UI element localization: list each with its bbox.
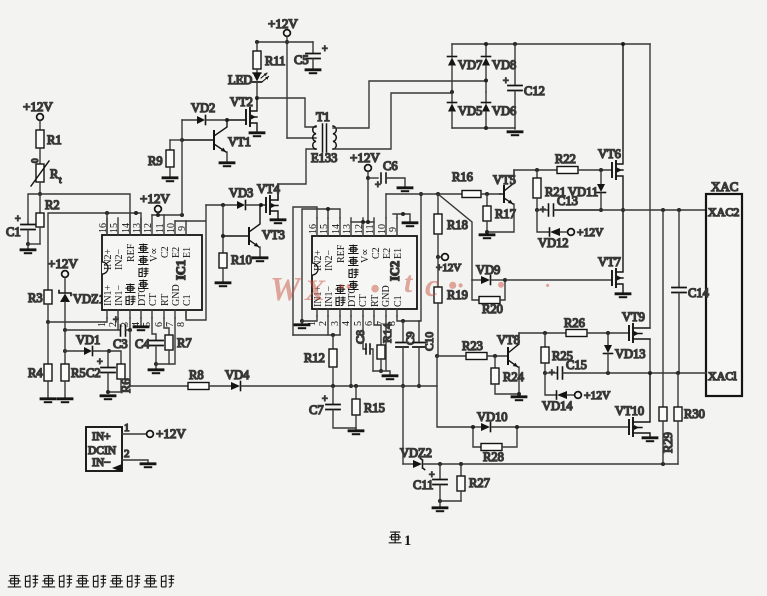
IC1 bottom pin stubs 1..8 xyxy=(107,310,186,318)
svg-text:C12: C12 xyxy=(524,84,545,98)
diode VD8 xyxy=(482,44,517,92)
svg-text:XAC2: XAC2 xyxy=(708,205,739,219)
IC1 pin13 label (output control, CJK) xyxy=(139,244,149,289)
wire R3 riser to IC1 pins 16/13 xyxy=(48,213,141,290)
resistor R1 xyxy=(36,130,62,148)
svg-text:XACl: XACl xyxy=(708,369,737,383)
svg-text:2: 2 xyxy=(124,448,130,460)
svg-text:+12V: +12V xyxy=(140,191,170,206)
node LED/VT2/T1 xyxy=(255,96,259,100)
connector XAC box xyxy=(706,179,742,396)
svg-text:LED: LED xyxy=(228,73,252,87)
node R17/emitter ground xyxy=(485,230,489,234)
svg-text:R27: R27 xyxy=(469,476,490,490)
capacitor C13 xyxy=(537,194,601,216)
IC2 bottom pin numbers xyxy=(307,321,398,326)
resistor R27 xyxy=(457,464,490,501)
resistor R15 xyxy=(349,386,385,434)
resistor R20 (parallel with VD9) xyxy=(472,280,505,316)
svg-text:C15: C15 xyxy=(566,358,587,372)
svg-text:IC2: IC2 xyxy=(388,261,402,281)
node VD3/VT4 gate/VT3 collector xyxy=(259,203,263,207)
diode VD10 xyxy=(473,410,517,432)
svg-text:+: + xyxy=(375,180,381,191)
IC2 pin13 label (output control, CJK) xyxy=(349,245,359,290)
svg-text:C1: C1 xyxy=(6,225,21,239)
IC1 top inner labels xyxy=(103,243,193,270)
svg-text:+12V: +12V xyxy=(48,256,78,271)
svg-text:C4: C4 xyxy=(135,337,150,351)
svg-text:IN2+: IN2+ xyxy=(313,249,324,271)
wire XAC2 line xyxy=(554,209,706,211)
capacitor C15 xyxy=(545,358,706,379)
wire IC2 pins15/14 tie down left side xyxy=(302,209,340,321)
resistor R3 xyxy=(28,290,52,322)
node VD3/R10 branch xyxy=(221,203,225,207)
resistor R6 xyxy=(108,351,133,393)
svg-text:REF: REF xyxy=(126,243,137,262)
svg-text:13: 13 xyxy=(342,224,353,234)
transistor VT3 (NPN) xyxy=(223,205,285,261)
node C4/R7/pin7 ground xyxy=(154,362,158,366)
svg-text:R12: R12 xyxy=(304,351,325,365)
IC1 bottom inner labels xyxy=(103,284,193,306)
resistor R10 xyxy=(216,253,252,286)
capacitor C7 xyxy=(309,386,356,428)
svg-text:+12V: +12V xyxy=(23,99,53,114)
svg-text:16: 16 xyxy=(98,223,109,233)
wire VT7 gate line xyxy=(505,279,612,281)
wire IC2 pin1 to ground xyxy=(302,316,317,323)
svg-text:+: + xyxy=(322,44,328,55)
svg-text:R14: R14 xyxy=(380,323,394,343)
node C8/R14 ground tie xyxy=(379,369,383,373)
wire +12V to T1 center tap xyxy=(287,137,316,139)
svg-text:DTC: DTC xyxy=(137,286,148,306)
transistor VT9 (MOSFET) xyxy=(622,310,650,342)
svg-text:11: 11 xyxy=(155,223,166,233)
bottom caption (CJK title) xyxy=(8,575,174,587)
svg-text:VT9: VT9 xyxy=(622,310,645,324)
svg-text:•·: •· xyxy=(448,271,464,300)
svg-text:R15: R15 xyxy=(364,401,385,415)
resistor R16 xyxy=(452,170,500,198)
svg-text:VT7: VT7 xyxy=(598,255,621,269)
wire T1 primary bottom tap to VT4 drain xyxy=(278,149,316,200)
wire IC2 pin3 drop xyxy=(339,316,341,335)
thermistor Rt xyxy=(30,158,62,186)
svg-text:10: 10 xyxy=(377,224,388,234)
svg-text:VT6: VT6 xyxy=(598,147,621,161)
svg-text:c: c xyxy=(425,267,439,303)
svg-text:GND: GND xyxy=(381,285,392,307)
svg-text:··: ·· xyxy=(338,272,352,303)
svg-text:V∝: V∝ xyxy=(360,249,371,263)
svg-text:+12V: +12V xyxy=(268,16,298,31)
svg-text:IN−: IN− xyxy=(92,457,111,469)
transistor VT4 (MOSFET) xyxy=(257,182,285,223)
wire +12V rail to R11 and C5 xyxy=(257,41,313,43)
svg-text:E2: E2 xyxy=(382,248,393,259)
IC2 bottom pin stubs 1..8 xyxy=(317,309,397,316)
wire IC2 pin2 drop xyxy=(327,316,329,335)
capacitor C14 xyxy=(672,210,710,373)
svg-text:C11: C11 xyxy=(413,478,433,492)
figure caption 图1 xyxy=(389,531,412,549)
capacitor C11 xyxy=(413,464,447,501)
svg-text:+12V: +12V xyxy=(577,227,604,239)
svg-text:+: + xyxy=(15,214,21,225)
resistor R17 xyxy=(483,194,516,232)
wire VD3 node to R10/VT3 base xyxy=(222,205,224,253)
node +12V tap between R18/R19 xyxy=(436,255,440,259)
svg-text:W: W xyxy=(270,271,303,308)
svg-text:R8: R8 xyxy=(189,368,204,382)
resistor R19 xyxy=(434,257,468,356)
resistor R18 xyxy=(434,194,468,257)
resistor R25 xyxy=(541,333,573,373)
svg-text:VD6: VD6 xyxy=(492,104,516,118)
svg-text:12: 12 xyxy=(143,223,154,233)
wire C3 to pin 3 and feedback rail xyxy=(126,318,131,330)
wire IC1 drive rail to VD3 xyxy=(206,204,237,206)
resistor R21 xyxy=(533,170,566,210)
svg-text:+12V: +12V xyxy=(350,150,380,165)
svg-text:13: 13 xyxy=(132,223,143,233)
+12V terminal top-left xyxy=(23,99,53,130)
diode VD1 xyxy=(63,333,111,356)
IC1 top pin numbers xyxy=(98,223,188,233)
svg-text:DCIN: DCIN xyxy=(88,445,117,457)
wire bridge top rail xyxy=(452,43,650,45)
node R18 top xyxy=(436,192,440,196)
resistor R23 xyxy=(462,339,508,360)
transistor VT6 (MOSFET) xyxy=(598,44,623,271)
svg-text:R4: R4 xyxy=(28,366,43,380)
capacitor C1 xyxy=(6,214,35,244)
ground under C11 xyxy=(433,501,447,511)
resistor R7 xyxy=(164,318,192,364)
wire R23 branch xyxy=(435,354,439,358)
svg-text:X: X xyxy=(304,274,326,307)
svg-text:R: R xyxy=(50,167,59,181)
svg-text:C2: C2 xyxy=(371,247,382,259)
diode VD3 xyxy=(229,186,261,210)
svg-text:CT: CT xyxy=(148,293,159,306)
svg-text:16: 16 xyxy=(308,224,319,234)
IC2 box xyxy=(312,236,417,309)
svg-text:R2: R2 xyxy=(45,198,60,212)
capacitor C2 xyxy=(86,351,115,392)
svg-text:R5: R5 xyxy=(71,366,86,380)
svg-text:15: 15 xyxy=(109,223,120,233)
node +12V branch xyxy=(285,40,289,44)
wire bridge bottom rail xyxy=(452,127,515,129)
node XAC1 line taps xyxy=(606,371,610,375)
svg-text:C14: C14 xyxy=(688,286,710,300)
IC2 pin3 label (feedback, CJK) xyxy=(336,285,346,306)
svg-text:·: · xyxy=(545,275,550,297)
svg-text:VT2: VT2 xyxy=(230,95,253,109)
svg-text:R26: R26 xyxy=(564,316,585,330)
wire PWM rail across xyxy=(333,385,437,387)
svg-text:VD7: VD7 xyxy=(458,58,482,72)
svg-text:VD13: VD13 xyxy=(615,347,646,361)
svg-text:C7: C7 xyxy=(309,403,324,417)
svg-text:R16: R16 xyxy=(452,170,473,184)
capacitor C9 xyxy=(396,321,417,386)
svg-text:VD5: VD5 xyxy=(458,104,482,118)
svg-text:R17: R17 xyxy=(495,207,516,221)
node VT5 base / R17 xyxy=(485,192,489,196)
svg-text:R10: R10 xyxy=(231,253,252,267)
svg-text:VDZ1: VDZ1 xyxy=(73,292,105,306)
svg-text:1: 1 xyxy=(124,422,130,434)
DCIN pin 1 to +12V terminal xyxy=(122,422,186,441)
svg-text:E1: E1 xyxy=(182,247,193,258)
svg-text:VT8: VT8 xyxy=(497,333,520,347)
svg-text:R20: R20 xyxy=(482,302,503,316)
wire VDZ2 riser xyxy=(402,386,404,464)
resistor R12 xyxy=(304,335,337,386)
node C11/R27 bottom xyxy=(438,499,442,503)
svg-text:R1: R1 xyxy=(47,133,62,147)
svg-text:E2: E2 xyxy=(171,247,182,258)
IC2 top inner labels xyxy=(313,244,404,271)
svg-text:IN2+: IN2+ xyxy=(103,248,114,270)
svg-text:CT: CT xyxy=(358,294,369,307)
node C2/R6 ground xyxy=(106,390,110,394)
svg-text:IN2−: IN2− xyxy=(114,248,125,270)
svg-text:2: 2 xyxy=(108,322,119,327)
transistor VT10 (MOSFET) xyxy=(615,373,657,441)
svg-text:+: + xyxy=(503,76,509,87)
wire Rt bottom to node xyxy=(39,182,41,194)
svg-text:V∝: V∝ xyxy=(149,248,160,262)
svg-text:R9: R9 xyxy=(148,154,163,168)
+12V terminal at IC1 Vcc xyxy=(140,191,170,215)
node VD2/VT2 gate/VT1 collector xyxy=(225,118,229,122)
node half-bridge mid xyxy=(621,208,625,212)
svg-text:IN1+: IN1+ xyxy=(103,284,114,306)
svg-text:VD4: VD4 xyxy=(225,368,250,382)
svg-text:REF: REF xyxy=(336,244,347,263)
resistor R4 xyxy=(28,322,55,402)
ground at IC1 pin 4 DTC xyxy=(134,318,148,330)
svg-text:GND: GND xyxy=(171,284,182,306)
svg-text:VT10: VT10 xyxy=(615,404,644,418)
svg-text:R7: R7 xyxy=(177,336,192,350)
transistor VT8 (NPN) xyxy=(497,333,520,394)
svg-text:R28: R28 xyxy=(483,450,504,464)
transformer T1 xyxy=(311,110,337,165)
svg-text:C6: C6 xyxy=(383,159,398,173)
svg-text:C10: C10 xyxy=(424,332,436,351)
node R3/pin1 xyxy=(46,320,50,324)
svg-text:12: 12 xyxy=(354,224,365,234)
+12V terminal at IC2 Vcc xyxy=(350,150,380,222)
IC2 top pin numbers xyxy=(308,224,399,234)
svg-text:9: 9 xyxy=(177,226,188,231)
svg-text:VDZ2: VDZ2 xyxy=(400,446,432,460)
wire VT9 source to XAC1 line xyxy=(649,339,651,373)
svg-text:XAC: XAC xyxy=(711,179,738,194)
node C9 bottom / VDZ2 riser xyxy=(401,384,405,388)
wire C8/R14/pin7 to ground xyxy=(373,316,390,374)
svg-text:E133: E133 xyxy=(311,151,337,165)
wire bottom rail from VDZ2 xyxy=(440,463,678,465)
svg-text:VT4: VT4 xyxy=(257,182,281,196)
svg-text:8: 8 xyxy=(176,322,187,327)
wire T1 secondary top to bridge xyxy=(333,81,486,128)
svg-text:VD14: VD14 xyxy=(542,399,573,413)
svg-text:0: 0 xyxy=(30,158,40,163)
svg-text:+: + xyxy=(540,205,546,216)
capacitor C8 xyxy=(353,316,373,371)
resistor R8 xyxy=(130,368,231,390)
wire IC2 pin16 wrap to R12 rail xyxy=(293,207,317,335)
svg-text:C2: C2 xyxy=(160,246,171,258)
wire VT9 gate line xyxy=(519,332,566,334)
IC1 box xyxy=(102,235,202,310)
svg-text:IN1−: IN1− xyxy=(114,284,125,306)
svg-text:C1: C1 xyxy=(182,294,193,306)
svg-text:1: 1 xyxy=(97,322,108,327)
svg-text:9: 9 xyxy=(388,227,399,232)
diode VD6 xyxy=(482,92,517,128)
resistor R14 xyxy=(374,316,394,371)
svg-text:14: 14 xyxy=(331,224,342,234)
zener VDZ1 xyxy=(59,291,105,331)
svg-text:VD2: VD2 xyxy=(191,101,215,115)
svg-text:VD12: VD12 xyxy=(538,236,569,250)
diode VD12 with +12V xyxy=(537,210,604,250)
IC1 pin3 label (feedback, CJK) xyxy=(126,284,136,305)
ground under C1 xyxy=(21,244,35,253)
wire diagonal to VD9 node xyxy=(438,194,472,280)
svg-text:11: 11 xyxy=(365,224,376,234)
resistor R29 xyxy=(659,210,675,464)
capacitor C10 xyxy=(413,321,436,386)
capacitor C12 xyxy=(503,44,545,135)
resistor R22 xyxy=(555,152,612,174)
transistor VT5 (NPN) xyxy=(487,170,516,232)
LED xyxy=(228,73,269,98)
+12V terminal at VDZ1 xyxy=(48,256,78,292)
node pin16 tap xyxy=(105,211,109,215)
svg-text:R24: R24 xyxy=(503,370,525,384)
svg-text:•: • xyxy=(497,272,505,297)
svg-text:E1: E1 xyxy=(393,248,404,259)
svg-text:VD3: VD3 xyxy=(229,186,253,200)
svg-text:+12V: +12V xyxy=(156,426,186,441)
wire R1 to Rt xyxy=(39,148,41,164)
svg-text:R30: R30 xyxy=(684,407,705,421)
wire R12 rail xyxy=(293,334,340,336)
diode VD14 with +12V xyxy=(542,373,611,413)
svg-text:VT3: VT3 xyxy=(262,228,285,242)
wire T1 secondary bottom to bridge xyxy=(333,93,452,149)
wire to C3 and IC1 pin 2 xyxy=(65,318,120,330)
IC2 bottom inner labels xyxy=(313,285,404,307)
resistor R2 xyxy=(36,194,60,244)
wire Vcc tie IC2 pins 13,12,11 xyxy=(351,221,374,223)
svg-text:C5: C5 xyxy=(294,53,309,67)
svg-text:C2: C2 xyxy=(86,366,101,380)
diode VD4 xyxy=(225,368,333,391)
capacitor C6 xyxy=(368,159,412,191)
wire IC2 pin8 to C9/C10 xyxy=(397,316,419,321)
svg-text:VD8: VD8 xyxy=(492,58,516,72)
svg-text:•: • xyxy=(370,274,380,305)
svg-text:1: 1 xyxy=(404,533,411,549)
IC2 top pin stubs 16..9 xyxy=(317,218,397,236)
wire VT9 drain riser from top rail xyxy=(649,44,651,328)
node VD8/VD6 mid xyxy=(484,79,488,83)
wire to IC1 pin 1 xyxy=(48,318,107,322)
svg-text:10: 10 xyxy=(166,223,177,233)
node VT8 emitter ground xyxy=(517,392,521,396)
capacitor C4 xyxy=(135,318,163,364)
transistor VT1 (NPN) xyxy=(182,120,251,166)
svg-text:R18: R18 xyxy=(447,218,468,232)
diode VD5 xyxy=(448,92,483,128)
diode VD11 xyxy=(568,170,606,210)
wire drive line to R16 xyxy=(386,193,462,195)
zener VDZ2 xyxy=(400,446,440,470)
wire T1 primary top tap xyxy=(257,98,316,127)
node VT8 base xyxy=(493,354,497,358)
resistor R9 xyxy=(148,140,182,181)
resistor R5 xyxy=(58,330,86,402)
svg-text:t: t xyxy=(59,175,62,185)
diode VD7 xyxy=(448,44,483,92)
resistor R11 xyxy=(253,42,285,73)
wire drive line wrap down IC2 right side to pin8 xyxy=(419,194,421,321)
svg-text:R11: R11 xyxy=(265,54,285,68)
node C6 branch xyxy=(366,176,370,180)
node C1/R2 bottom xyxy=(26,242,30,246)
resistor R24 xyxy=(491,356,525,394)
wire riser VD2/base to +12V tie xyxy=(181,120,183,215)
resistor R30 xyxy=(674,373,705,464)
svg-text:C8: C8 xyxy=(353,330,367,344)
wire Vcc tie IC1 pins 12,11 xyxy=(152,214,182,216)
transistor VT7 (MOSFET) xyxy=(598,255,630,297)
svg-text:14: 14 xyxy=(121,223,132,233)
wire IC2 pin4 drop to PWM rail xyxy=(350,316,352,386)
svg-text:C3: C3 xyxy=(113,337,128,351)
diode VD13 xyxy=(604,333,646,373)
svg-text:RT: RT xyxy=(160,294,171,306)
wire VT6 gate line xyxy=(514,169,557,171)
node Rt/R2/C1 xyxy=(38,192,42,196)
DCIN pin 2 to ground xyxy=(122,448,155,467)
wire IC2 pin9 to ground xyxy=(393,212,417,226)
connector DCIN box xyxy=(86,427,122,472)
node VD7/VD5 mid xyxy=(450,90,454,94)
svg-text:+12V: +12V xyxy=(584,390,611,402)
wire node to C1 and to IC1 pin14 xyxy=(28,194,130,235)
red watermark xyxy=(270,266,550,308)
svg-text:VT5: VT5 xyxy=(493,173,516,187)
svg-text:T1: T1 xyxy=(316,110,330,124)
svg-text:15: 15 xyxy=(319,224,330,234)
svg-text:IC1: IC1 xyxy=(174,260,188,280)
svg-text:3: 3 xyxy=(120,322,131,327)
wire gate riser to VD10 xyxy=(437,356,473,427)
transistor VT2 (MOSFET) xyxy=(227,95,264,136)
